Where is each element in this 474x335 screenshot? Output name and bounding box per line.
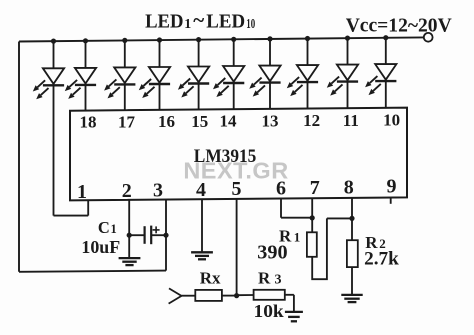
svg-text:4: 4 (196, 179, 206, 201)
svg-text:18: 18 (80, 113, 97, 132)
svg-text:3: 3 (153, 180, 163, 202)
svg-text:6: 6 (276, 177, 286, 199)
svg-text:16: 16 (158, 112, 175, 131)
svg-text:10: 10 (383, 111, 400, 130)
svg-text:Rx: Rx (200, 269, 221, 288)
svg-text:1: 1 (294, 230, 301, 245)
svg-text:15: 15 (191, 112, 208, 131)
svg-text:14: 14 (220, 112, 238, 131)
svg-text:1: 1 (77, 181, 87, 203)
svg-text:LED: LED (206, 11, 245, 33)
svg-text:LED: LED (145, 11, 183, 33)
svg-text:17: 17 (118, 112, 136, 131)
svg-text:5: 5 (232, 178, 242, 200)
svg-text:10k: 10k (254, 301, 284, 321)
svg-text:~: ~ (193, 8, 204, 32)
svg-text:8: 8 (344, 176, 354, 198)
svg-text:C: C (98, 218, 110, 237)
svg-text:Vcc=12~20V: Vcc=12~20V (346, 14, 452, 36)
svg-text:13: 13 (262, 111, 279, 130)
svg-text:2: 2 (122, 180, 132, 202)
svg-text:3: 3 (275, 273, 282, 288)
svg-text:2.7k: 2.7k (364, 248, 399, 269)
svg-text:11: 11 (343, 111, 359, 130)
svg-text:R: R (258, 269, 271, 288)
svg-text:10uF: 10uF (81, 237, 120, 257)
svg-text:12: 12 (303, 111, 320, 130)
svg-text:390: 390 (257, 242, 287, 264)
svg-text:10: 10 (246, 17, 255, 32)
svg-text:7: 7 (310, 177, 320, 199)
svg-text:9: 9 (387, 176, 397, 198)
svg-text:1: 1 (111, 222, 117, 236)
svg-text:1: 1 (184, 17, 191, 32)
